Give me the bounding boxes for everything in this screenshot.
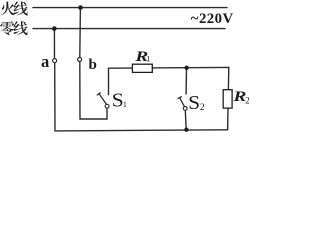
label 零线 (neutral wire)	[0, 21, 14, 35]
switch S1 blade tick	[97, 93, 100, 95]
terminal a (open circle)	[53, 59, 57, 63]
svg-text:2: 2	[200, 103, 205, 113]
wire live line	[33, 7, 227, 9]
wire loop bottom side	[55, 130, 228, 131]
wire loop right side	[228, 67, 229, 129]
wire S1 top vertical	[108, 68, 110, 94]
resistor R2 body	[223, 90, 232, 108]
wire a drop from neutral line	[53, 29, 55, 59]
resistor R1 body	[132, 64, 152, 72]
switch S1 blade	[99, 94, 107, 105]
switch S2 blade tick	[178, 97, 181, 99]
switch S2 pivot circle	[183, 107, 187, 111]
svg-text:~220V: ~220V	[191, 11, 234, 27]
wire b drop from live line	[79, 8, 82, 58]
svg-text:S: S	[188, 93, 200, 114]
wire loop top side	[109, 66, 229, 69]
svg-text:1: 1	[146, 53, 150, 63]
switch S1 pivot circle	[105, 104, 109, 108]
svg-text:2: 2	[245, 95, 250, 105]
svg-text:a: a	[41, 52, 49, 71]
switch S2 blade	[180, 98, 185, 107]
svg-text:b: b	[89, 57, 97, 73]
wire S2 branch upper	[185, 68, 187, 94]
wire b to S1 bottom (elbow)	[80, 62, 107, 119]
label 火线 (live wire)	[1, 2, 15, 16]
wire a branch left side down	[54, 63, 56, 131]
junction dot on neutral line (node a feed)	[52, 26, 57, 31]
junction dot top of S2 branch	[184, 66, 188, 70]
junction dot bottom of S2 branch	[184, 128, 188, 132]
junction dot on live line (node b feed)	[78, 5, 83, 10]
terminal b (open circle)	[78, 58, 82, 62]
svg-text:1: 1	[123, 99, 127, 109]
wire neutral line	[33, 28, 225, 30]
wire S2 branch lower	[184, 110, 187, 129]
